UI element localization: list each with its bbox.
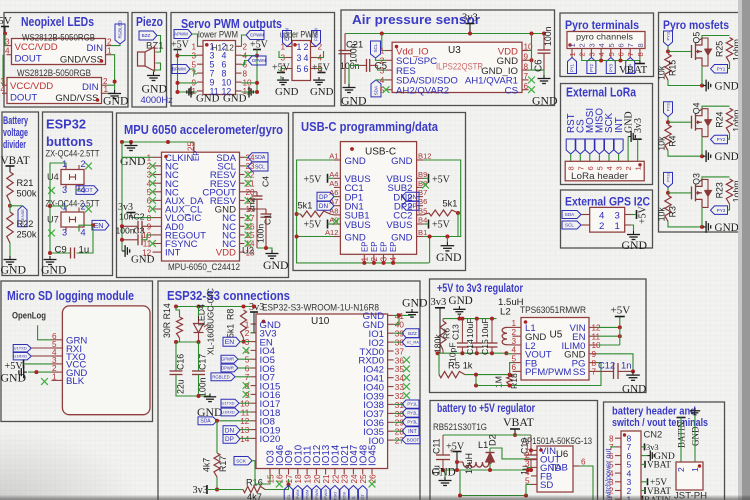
tactile switch U4	[47, 159, 86, 195]
junction	[252, 305, 256, 309]
wire r14 top	[176, 307, 180, 318]
resistor 5k1 right	[423, 199, 458, 217]
net flag VSENSE	[18, 206, 27, 227]
svg-text:2: 2	[370, 257, 379, 262]
wire icra	[394, 341, 402, 343]
svg-text:4k7: 4k7	[202, 458, 212, 472]
svg-text:D2: D2	[488, 434, 498, 446]
wire rail to pin10	[242, 82, 258, 84]
svg-text:3: 3	[62, 185, 67, 195]
wire U7 pin4 to EN	[79, 225, 91, 231]
ground gps	[622, 231, 648, 252]
resistor R25 1ohm	[715, 38, 742, 63]
wire ENflag	[240, 341, 244, 343]
svg-text:DIN: DIN	[86, 43, 103, 54]
svg-text:Q5: Q5	[692, 32, 702, 44]
svg-text:Pyro terminals: Pyro terminals	[565, 18, 639, 32]
wire gnd rail reg	[443, 318, 497, 320]
label JST-PH	[674, 491, 707, 500]
wire B1 gnd down	[429, 237, 431, 263]
net flag pin5 lora	[595, 139, 604, 154]
net flag PY3L	[402, 418, 419, 426]
canvas right edge band	[742, 0, 750, 500]
wire H2 pin4 hook	[317, 51, 324, 58]
svg-text:34: 34	[395, 374, 405, 383]
svg-text:BZZ: BZZ	[408, 331, 417, 336]
wire led bot	[198, 340, 200, 342]
junction	[599, 59, 603, 63]
junction	[700, 84, 704, 88]
svg-text:GND: GND	[120, 154, 146, 168]
wire gnd18 to C1	[245, 208, 267, 210]
junction	[460, 317, 464, 321]
svg-text:Air pressure sensor: Air pressure sensor	[352, 13, 480, 27]
svg-text:U2: U2	[242, 245, 254, 256]
junction	[455, 468, 459, 472]
svg-text:36: 36	[395, 356, 405, 365]
wire ilim	[598, 344, 620, 346]
junction	[120, 224, 124, 228]
junction	[91, 223, 95, 227]
svg-text:U1RXD: U1RXD	[13, 354, 27, 359]
no-connect X	[403, 374, 410, 381]
wire SCL to pin2	[376, 58, 386, 60]
wire cn gnd	[641, 455, 648, 457]
wire flag to gate node Q5	[667, 46, 669, 52]
wire +5V rail left	[178, 50, 198, 93]
svg-text:DIN: DIN	[82, 82, 99, 93]
junction	[455, 460, 459, 464]
junction	[382, 261, 386, 265]
svg-text:R23: R23	[715, 182, 725, 198]
svg-text:3: 3	[511, 337, 516, 346]
svg-text:B12: B12	[418, 152, 432, 161]
gnd jst	[690, 408, 701, 446]
wire drain top Q4	[702, 106, 730, 109]
svg-text:B9: B9	[418, 170, 427, 179]
wire flag to gate node Q3	[667, 187, 669, 193]
junction	[287, 483, 291, 487]
title Servo PWM outputs	[181, 17, 282, 31]
junction	[474, 373, 478, 377]
wire lora gnd	[627, 137, 629, 162]
junction	[490, 317, 494, 321]
svg-text:40: 40	[395, 321, 405, 330]
no-connect X	[149, 240, 156, 247]
svg-text:VCC/VDD: VCC/VDD	[15, 42, 58, 53]
label ZX-QC44 2	[46, 199, 101, 209]
wire vsense tap	[10, 205, 23, 207]
wire pin11 to GND	[192, 92, 197, 95]
net flag BZZ s3	[402, 329, 419, 338]
wire PY3 out	[728, 204, 730, 210]
ground reg right	[622, 371, 646, 395]
ground air right	[532, 75, 558, 108]
svg-text:6: 6	[586, 166, 595, 170]
wire 3v3 bot rail	[207, 489, 243, 491]
section Air pressure sensor frame	[341, 10, 555, 106]
wire gps gnd	[631, 225, 634, 231]
title External LoRa	[566, 86, 637, 100]
svg-text:10: 10	[240, 400, 250, 409]
svg-text:1M: 1M	[494, 376, 504, 388]
svg-text:100n: 100n	[116, 226, 135, 236]
section +5V to 3v3 regulator frame	[430, 279, 647, 393]
svg-text:SS: SS	[573, 367, 586, 378]
wire C5 left to gnd	[349, 65, 360, 84]
regulator U5 TPS63051RMWR	[511, 318, 601, 381]
svg-text:R5 1k: R5 1k	[448, 360, 473, 371]
svg-text:A1: A1	[329, 152, 338, 161]
junction	[428, 235, 432, 239]
inductor L2 1.5uH	[502, 327, 507, 344]
no-connect X	[149, 188, 156, 195]
junction	[460, 351, 464, 355]
svg-text:RGBLED: RGBLED	[118, 20, 123, 38]
wire u1txd s3	[239, 402, 251, 404]
svg-text:5: 5	[297, 64, 302, 74]
capacitor C6	[534, 26, 553, 72]
section External LoRa frame	[561, 84, 653, 185]
3v3 bar lora	[634, 138, 642, 140]
wire APWM to pin1	[192, 34, 198, 47]
wire source gnd Q4	[668, 151, 702, 157]
capacitor C13 10pF	[448, 319, 468, 362]
svg-text:21: 21	[322, 474, 331, 484]
wire gate wire Q3	[668, 192, 692, 194]
svg-text:ESP32-S3-WROOM-1U-N16R8: ESP32-S3-WROOM-1U-N16R8	[262, 303, 379, 313]
svg-text:B4: B4	[418, 216, 427, 225]
GND s3 top	[402, 296, 428, 318]
junction	[474, 384, 478, 388]
svg-text:DOUT: DOUT	[10, 93, 37, 104]
net flag U1RXD s3	[221, 408, 239, 416]
net flag APWM	[174, 30, 192, 39]
net flag SCK s3	[234, 457, 252, 465]
svg-text:GND: GND	[275, 86, 299, 98]
svg-text:WS2812B-5050RGB: WS2812B-5050RGB	[17, 68, 91, 78]
svg-text:3: 3	[62, 228, 67, 238]
svg-text:VBAT: VBAT	[619, 64, 648, 76]
wire cpout to C4	[245, 191, 258, 193]
ground battreg	[432, 467, 456, 486]
title Piezo	[136, 15, 163, 29]
net flag EPWM	[283, 27, 292, 46]
wire gnd pin41	[394, 314, 412, 316]
svg-text:14: 14	[240, 435, 250, 444]
svg-text:18: 18	[294, 474, 303, 484]
LED module WS2812B label 1	[22, 33, 95, 43]
+5V H2 right	[312, 63, 331, 74]
wire pin1 clkin	[122, 142, 153, 157]
section battery to +5V regulator frame	[430, 401, 598, 500]
svg-text:6: 6	[245, 364, 250, 373]
resistor R16 4k7b	[243, 478, 265, 500]
label ESP32-S3-WROOM	[262, 303, 379, 313]
svg-text:3: 3	[615, 166, 624, 170]
svg-text:9: 9	[524, 53, 529, 62]
junction	[436, 351, 440, 355]
svg-text:+5V: +5V	[304, 175, 323, 186]
wire dpwr	[238, 367, 251, 369]
wire right vert	[531, 51, 533, 71]
label L2	[498, 297, 524, 318]
no-connect X	[41, 378, 48, 385]
title Battery voltage divider	[3, 115, 28, 151]
wire H2 pin6 to +5V	[317, 69, 322, 73]
svg-text:8: 8	[609, 434, 614, 443]
junction	[526, 468, 530, 472]
svg-text:2: 2	[599, 221, 604, 232]
wire pg	[476, 363, 601, 386]
regulator U6 AP1501A-50K5G-13	[525, 442, 586, 492]
resistor R8 5k1	[226, 309, 247, 338]
LED module WS2812B-5050RGB #1	[5, 37, 112, 65]
wire pyro d4	[600, 58, 602, 61]
svg-text:6: 6	[511, 363, 516, 372]
3v3 supply air	[462, 13, 478, 34]
net label RST	[566, 113, 577, 133]
no-connect X	[149, 171, 156, 178]
wire boot	[394, 439, 402, 441]
svg-text:+5V: +5V	[0, 15, 12, 27]
+5V sd	[5, 359, 24, 372]
wire caps gnd rail	[176, 375, 210, 397]
wire source gnd Q3	[668, 221, 702, 227]
capacitor C21 label	[346, 39, 363, 50]
net label 3v3 lora	[633, 118, 644, 133]
wire pyro VBAT rail	[582, 58, 640, 61]
net flag SDA gps	[562, 211, 581, 219]
net flag BPWM	[172, 65, 190, 74]
wire R21-R22	[9, 202, 11, 212]
3v3 cn2	[645, 443, 659, 452]
net flag BZZ	[139, 31, 157, 40]
svg-text:U5: U5	[550, 330, 563, 341]
svg-text:7: 7	[576, 166, 585, 170]
svg-text:10n: 10n	[119, 212, 134, 222]
svg-text:20: 20	[313, 474, 322, 484]
junction	[618, 334, 622, 338]
svg-text:Piezo: Piezo	[136, 15, 163, 29]
junction	[372, 261, 376, 265]
junction	[666, 50, 670, 54]
wire A12 gnd	[297, 236, 334, 238]
svg-text:VCC/VDD: VCC/VDD	[10, 81, 53, 92]
svg-text:2: 2	[578, 52, 587, 56]
svg-text:5: 5	[191, 60, 196, 69]
capacitor C12 1n	[598, 360, 633, 380]
svg-text:2n2: 2n2	[247, 197, 257, 212]
wire Vdd_IO up	[382, 34, 386, 51]
svg-text:5: 5	[607, 52, 616, 56]
svg-text:+5V: +5V	[611, 305, 631, 317]
no-connect X	[149, 206, 156, 213]
header CN2	[609, 429, 662, 500]
net label INT	[614, 117, 625, 133]
svg-text:6: 6	[304, 64, 309, 74]
wire lora 3v3	[637, 139, 639, 161]
net flag PY1	[711, 65, 728, 74]
VBAT pyro	[619, 61, 648, 77]
no-connect X	[243, 382, 250, 389]
wire 3v3 pin2	[251, 332, 254, 334]
junction	[48, 251, 52, 255]
wire +5V rail right	[242, 50, 258, 93]
wire cn 3v3	[641, 446, 646, 448]
junction	[700, 154, 704, 158]
label switch/power out	[604, 448, 613, 500]
svg-text:C2: C2	[134, 212, 145, 222]
+5V usb B4	[429, 220, 451, 231]
wire l1 right	[489, 461, 490, 463]
svg-text:AH2/QVAR2: AH2/QVAR2	[396, 86, 449, 97]
svg-text:PFM/PWM: PFM/PWM	[525, 367, 571, 378]
svg-text:PY3L: PY3L	[407, 419, 418, 424]
no-connect X	[245, 223, 252, 230]
wire body diode bot Q5	[702, 58, 708, 66]
wire GRN hook	[38, 325, 52, 340]
wire B12 gnd right	[423, 160, 461, 237]
svg-text:8: 8	[636, 43, 645, 47]
title battery to +5V regulator	[437, 401, 535, 415]
svg-text:U4: U4	[47, 172, 59, 182]
svg-text:2: 2	[511, 328, 516, 337]
svg-text:6: 6	[617, 52, 626, 56]
no-connect X	[85, 206, 92, 213]
svg-text:GND: GND	[310, 86, 334, 98]
svg-text:PY1L: PY1L	[665, 30, 670, 41]
junction	[242, 305, 246, 309]
IMU U2 MPU-6050	[142, 141, 255, 261]
svg-text:3v3: 3v3	[431, 297, 447, 308]
junction	[295, 212, 299, 216]
resistor R3 10k	[657, 195, 678, 221]
svg-text:TPS63051RMWR: TPS63051RMWR	[520, 305, 586, 315]
resistor R17 4k7	[202, 453, 229, 477]
svg-text:+5V: +5V	[304, 220, 323, 231]
wire vin	[531, 449, 537, 451]
svg-text:GND: GND	[1, 371, 27, 385]
junction	[264, 246, 268, 250]
svg-text:R21: R21	[17, 178, 34, 188]
wire gnd stem reg	[458, 314, 460, 319]
capacitor C5	[340, 59, 388, 72]
ground servo right	[223, 87, 253, 105]
net flag INT s3	[402, 427, 419, 436]
tactile switch U7	[47, 202, 86, 238]
svg-text:+5V to 3v3 regulator: +5V to 3v3 regulator	[437, 281, 523, 295]
svg-text:U1TXD: U1TXD	[14, 346, 27, 351]
wire body diode bot Q3	[702, 199, 708, 207]
svg-text:R24: R24	[715, 111, 725, 127]
resistor R22 250k	[7, 212, 37, 243]
net label GND lora	[624, 111, 635, 133]
svg-text:C3: C3	[134, 226, 145, 236]
svg-text:A5: A5	[329, 179, 338, 188]
junction	[166, 140, 170, 144]
wire GND pin9	[529, 59, 532, 61]
ground mpu top	[120, 142, 146, 168]
wire gpwr	[238, 358, 251, 360]
svg-text:PY2L: PY2L	[407, 411, 418, 416]
header H1.12 lower PWM	[188, 41, 253, 97]
svg-text:4: 4	[597, 52, 606, 56]
svg-text:1: 1	[511, 319, 516, 328]
svg-text:GND/VSS: GND/VSS	[55, 93, 98, 104]
net flag MOSI bottom	[340, 486, 349, 500]
net flag SDA air	[371, 80, 381, 97]
no-connect X	[149, 197, 156, 204]
wire u1rxd s3	[239, 411, 251, 413]
wire body diode bot Q4	[702, 129, 708, 137]
junction	[197, 305, 201, 309]
svg-text:GND: GND	[622, 384, 646, 396]
svg-text:GND: GND	[449, 295, 473, 307]
wire lora flag 5	[618, 154, 620, 161]
svg-text:SD: SD	[540, 480, 553, 491]
svg-text:25: 25	[359, 474, 368, 484]
svg-text:VBAT: VBAT	[647, 460, 671, 470]
svg-text:B8: B8	[418, 179, 427, 188]
svg-text:2: 2	[380, 57, 385, 66]
junction	[34, 370, 38, 374]
section Neopixel LEDs frame	[4, 13, 128, 108]
wire H2 gnd left	[280, 76, 282, 79]
wire c17 down	[198, 375, 200, 397]
svg-text:PY3: PY3	[717, 208, 726, 213]
svg-text:voltage: voltage	[3, 127, 28, 139]
no-connect X	[245, 214, 252, 221]
wire tab out	[579, 466, 593, 500]
svg-text:5: 5	[245, 356, 250, 365]
svg-text:12: 12	[240, 417, 250, 426]
net flag SCL air	[371, 41, 381, 58]
wire gate wire Q4	[668, 121, 692, 123]
net flag SDA mpu	[248, 153, 268, 162]
+5V H2 left	[272, 63, 291, 74]
svg-text:ILPS22QSTR: ILPS22QSTR	[436, 62, 483, 73]
svg-text:IO45: IO45	[368, 444, 379, 466]
inductor L1 18uH	[463, 440, 489, 474]
net flag U1TXD	[13, 345, 31, 352]
resistor R23 1ohm	[715, 179, 742, 204]
3v3 mpu	[118, 202, 136, 218]
wire out to node	[490, 448, 531, 459]
no-connect X	[245, 171, 252, 178]
svg-text:DPWM: DPWM	[252, 58, 266, 63]
svg-text:4: 4	[0, 85, 5, 94]
wire body diode top Q5	[702, 38, 708, 45]
ground lora	[628, 131, 635, 142]
ground s3 left	[197, 394, 223, 420]
no-connect X	[245, 180, 252, 187]
svg-text:3: 3	[297, 53, 302, 63]
junction	[174, 340, 178, 344]
svg-text:8: 8	[567, 166, 576, 170]
wire cn vbat2	[641, 490, 645, 492]
svg-text:OpenLog: OpenLog	[12, 311, 46, 321]
svg-text:DN: DN	[319, 203, 329, 210]
title Pyro terminals	[565, 18, 639, 32]
svg-text:U1RXD: U1RXD	[221, 409, 235, 414]
svg-text:Battery: Battery	[3, 115, 28, 127]
svg-text:GND: GND	[715, 81, 739, 93]
wire C9 left	[50, 252, 71, 254]
wire jst batin	[680, 418, 682, 463]
svg-text:GPWR: GPWR	[221, 357, 234, 362]
label RB521S30T1G	[433, 422, 487, 432]
